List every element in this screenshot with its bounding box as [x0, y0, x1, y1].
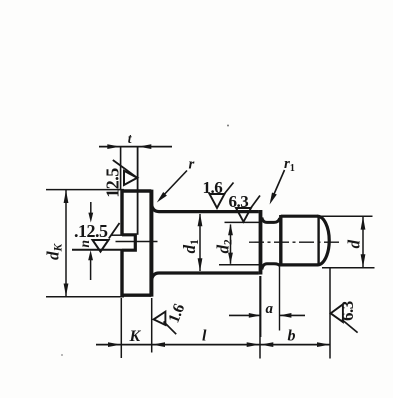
dK bottom extension line [46, 296, 124, 298]
a left arrow [249, 313, 261, 318]
a right extension line [279, 267, 281, 331]
roughness 1.6 (shank) tail [224, 183, 234, 195]
t left extension line [120, 147, 122, 190]
b right arrow [317, 342, 330, 347]
end cylinder top line [281, 215, 318, 218]
svg-text:l: l [202, 328, 207, 345]
r1 leader line [271, 170, 285, 201]
dK bottom arrow [64, 284, 69, 297]
roughness 6.3 (end face) triangle [331, 304, 343, 322]
roughness 12.5 (slot) tail [109, 223, 120, 239]
svg-text:r: r [189, 157, 195, 173]
shank top line with fillet r [151, 204, 258, 212]
slot bottom extension line [72, 249, 122, 251]
t left arrow [107, 144, 120, 149]
speck [61, 354, 63, 356]
svg-text:d: d [345, 240, 364, 249]
roughness 6.3 (end face) tail [342, 320, 358, 333]
d1 dimension line [199, 214, 201, 271]
svg-text:6.3: 6.3 [338, 301, 357, 321]
t right arrow [138, 144, 151, 149]
roughness 1.6 (under-head face) tail [164, 322, 177, 335]
roughness 12.5 (head) triangle [124, 171, 137, 185]
dK dimension line [65, 190, 67, 297]
d2 bottom extension line [219, 264, 259, 266]
roughness 1.6 (under-head face) triangle [154, 312, 166, 325]
b left arrow [260, 342, 273, 347]
r leader arrow [157, 192, 167, 203]
svg-text:.12.5: .12.5 [74, 221, 108, 241]
slot centre line through head [116, 241, 158, 243]
a left extension line (through part) [260, 276, 262, 337]
roughness 6.3 (neck) tail [250, 196, 260, 209]
roughness 6.3 (neck) triangle [236, 208, 251, 222]
svg-text:a: a [266, 301, 274, 317]
K left arrow [108, 342, 121, 347]
shank end face [259, 210, 263, 275]
a dimension line left tail [229, 314, 261, 316]
r leader line [160, 171, 188, 200]
d2 dimension line [230, 225, 232, 264]
neck (d2) top line with fillets [262, 218, 280, 223]
svg-text:b: b [288, 327, 296, 344]
d bottom arrow [361, 254, 366, 267]
d2 top arrow [228, 224, 233, 236]
K right / l left extension line [151, 298, 153, 353]
main axis centreline (dash-dot) [249, 241, 340, 243]
dimension t line [99, 146, 172, 148]
slot notch in head [122, 235, 135, 250]
slot bottom edge / t right extension [137, 147, 139, 235]
speck [227, 125, 229, 127]
r1 leader arrow [270, 193, 277, 205]
spherical end dome arc [317, 216, 329, 265]
d1 bottom arrow [198, 258, 203, 271]
roughness 1.6 (shank) triangle [210, 194, 225, 208]
d2 bottom arrow [228, 253, 233, 265]
K right / l left arrow [152, 342, 165, 347]
d dimension line [362, 217, 364, 267]
K left extension line [120, 298, 122, 358]
n upper arrow [88, 213, 93, 223]
slot top short extension [111, 234, 122, 236]
head outline [122, 191, 151, 295]
n upper arrow line [90, 202, 92, 217]
svg-text:n: n [77, 240, 92, 248]
d bottom extension line [322, 267, 375, 269]
end cylinder (d) left face [279, 215, 282, 267]
d1 top arrow [198, 213, 203, 226]
bottom dimension line [96, 344, 331, 346]
sphere tangency chord [317, 216, 319, 265]
roughness 12.5 (slot) triangle [93, 240, 109, 252]
shank bottom line with fillet [151, 273, 258, 281]
a dimension line right tail [279, 314, 305, 316]
neck (d2) bottom line with fillets [262, 264, 280, 270]
d2 top extension line [225, 221, 260, 223]
n lower arrow [88, 250, 93, 260]
a right arrow [279, 313, 291, 318]
svg-text:K: K [129, 328, 142, 345]
d top arrow [361, 217, 366, 230]
svg-text:12.5: 12.5 [102, 168, 122, 198]
dK top arrow [64, 190, 69, 203]
roughness 12.5 (head) tail [113, 160, 138, 178]
l right / b left extension line (shank end) [259, 276, 261, 359]
end cylinder bottom line [281, 263, 318, 266]
d top extension line [320, 215, 373, 217]
l right arrow [247, 342, 260, 347]
dK top extension line [46, 189, 124, 191]
b right extension line (sphere tip) [329, 268, 331, 359]
n lower arrow tail [90, 255, 92, 280]
